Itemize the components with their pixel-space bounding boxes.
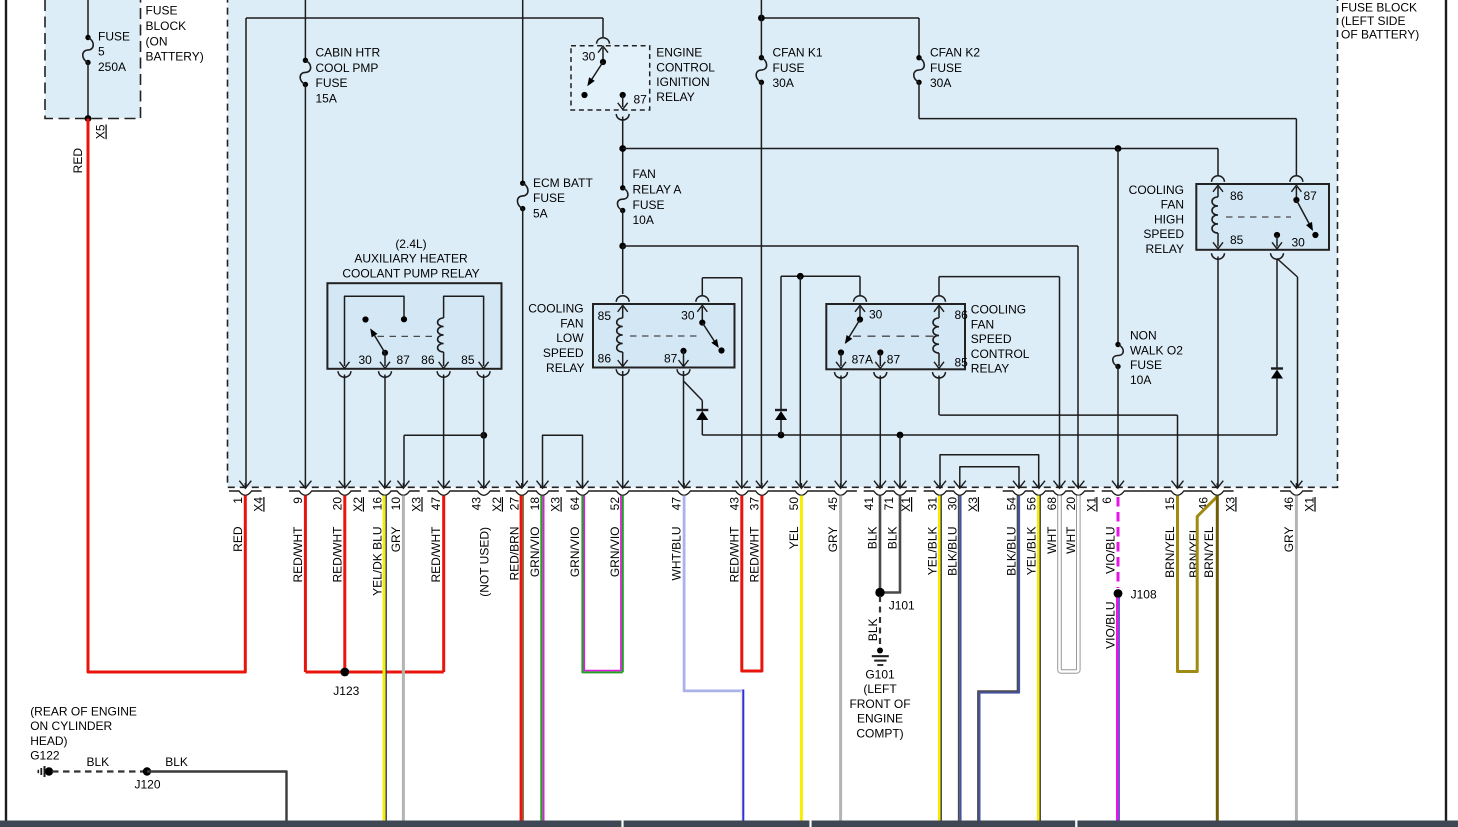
svg-text:HIGH: HIGH <box>1154 212 1184 226</box>
svg-text:31: 31 <box>926 497 940 511</box>
svg-text:20: 20 <box>330 497 344 511</box>
svg-text:85: 85 <box>461 353 475 367</box>
svg-text:87: 87 <box>397 353 411 367</box>
svg-text:X3: X3 <box>1223 497 1237 512</box>
svg-text:COOL PMP: COOL PMP <box>316 61 379 75</box>
svg-text:COOLING: COOLING <box>1129 183 1184 197</box>
svg-text:RED/WHT: RED/WHT <box>429 526 443 583</box>
svg-text:64: 64 <box>568 497 582 511</box>
svg-text:6: 6 <box>1100 497 1114 504</box>
svg-text:87: 87 <box>887 353 901 367</box>
svg-text:FUSE: FUSE <box>633 198 665 212</box>
svg-text:BLK: BLK <box>165 755 188 769</box>
svg-text:27: 27 <box>507 497 521 511</box>
svg-text:IGNITION: IGNITION <box>656 75 709 89</box>
svg-text:J108: J108 <box>1131 588 1157 602</box>
svg-text:X3: X3 <box>966 497 980 512</box>
svg-text:30: 30 <box>945 497 959 511</box>
svg-text:ECM BATT: ECM BATT <box>533 176 593 190</box>
svg-text:43: 43 <box>727 497 741 511</box>
svg-text:VIO/BLU: VIO/BLU <box>1104 527 1118 574</box>
svg-text:30: 30 <box>869 308 883 322</box>
svg-text:46: 46 <box>1282 497 1296 511</box>
svg-text:SPEED: SPEED <box>543 346 584 360</box>
svg-text:GRY: GRY <box>1282 527 1296 553</box>
svg-text:LOW: LOW <box>556 331 584 345</box>
svg-text:GRY: GRY <box>826 527 840 553</box>
svg-text:J123: J123 <box>333 684 359 698</box>
svg-text:BLOCK: BLOCK <box>146 19 187 33</box>
svg-text:HEAD): HEAD) <box>30 734 67 748</box>
svg-text:FUSE: FUSE <box>146 4 178 18</box>
svg-text:FUSE: FUSE <box>773 61 805 75</box>
svg-text:71: 71 <box>882 497 896 511</box>
svg-text:30: 30 <box>1292 236 1306 250</box>
svg-text:18: 18 <box>528 497 542 511</box>
svg-text:BRN/YEL: BRN/YEL <box>1187 526 1201 578</box>
svg-text:41: 41 <box>862 497 876 511</box>
svg-text:X4: X4 <box>251 497 265 512</box>
svg-text:15A: 15A <box>316 92 337 106</box>
svg-text:CONTROL: CONTROL <box>971 347 1030 361</box>
svg-text:YEL: YEL <box>787 526 801 549</box>
svg-text:WALK O2: WALK O2 <box>1130 343 1183 357</box>
svg-text:87: 87 <box>664 352 678 366</box>
svg-text:9: 9 <box>291 497 305 504</box>
svg-text:87A: 87A <box>852 353 873 367</box>
svg-text:FRONT OF: FRONT OF <box>849 697 910 711</box>
svg-text:ENGINE: ENGINE <box>656 46 702 60</box>
svg-text:RED/WHT: RED/WHT <box>330 526 344 583</box>
svg-text:BLK: BLK <box>86 755 109 769</box>
svg-text:(ON: (ON <box>146 34 168 48</box>
svg-text:RED/WHT: RED/WHT <box>747 526 761 583</box>
svg-text:10: 10 <box>389 497 403 511</box>
svg-text:COOLANT PUMP RELAY: COOLANT PUMP RELAY <box>342 266 479 280</box>
svg-text:YEL/DK BLU: YEL/DK BLU <box>370 527 384 596</box>
svg-text:250A: 250A <box>98 60 126 74</box>
svg-text:RELAY: RELAY <box>546 361 584 375</box>
svg-text:RED/WHT: RED/WHT <box>291 526 305 583</box>
svg-text:RED/BRN: RED/BRN <box>507 527 521 581</box>
svg-text:30: 30 <box>681 309 695 323</box>
svg-text:NON: NON <box>1130 329 1157 343</box>
svg-text:RELAY: RELAY <box>656 90 694 104</box>
svg-text:87: 87 <box>634 93 648 107</box>
svg-text:SPEED: SPEED <box>1143 227 1184 241</box>
svg-text:COOLING: COOLING <box>528 302 583 316</box>
svg-text:YEL/BLK: YEL/BLK <box>1025 527 1039 576</box>
svg-text:COMPT): COMPT) <box>856 726 903 740</box>
svg-text:16: 16 <box>370 497 384 511</box>
svg-text:(LEFT SIDE: (LEFT SIDE <box>1341 14 1405 28</box>
svg-text:47: 47 <box>429 497 443 511</box>
svg-text:(LEFT: (LEFT <box>863 682 897 696</box>
svg-text:1: 1 <box>231 497 245 504</box>
svg-text:COOLING: COOLING <box>971 303 1026 317</box>
svg-text:GRN/VIO: GRN/VIO <box>568 527 582 578</box>
svg-text:CONTROL: CONTROL <box>656 60 715 74</box>
svg-text:AUXILIARY HEATER: AUXILIARY HEATER <box>354 252 468 266</box>
svg-text:X1: X1 <box>1084 497 1098 512</box>
svg-text:86: 86 <box>598 352 612 366</box>
svg-text:BLK: BLK <box>866 619 880 642</box>
svg-text:SPEED: SPEED <box>971 332 1012 346</box>
svg-text:BLK/BLU: BLK/BLU <box>1005 527 1019 576</box>
svg-text:FAN: FAN <box>633 167 656 181</box>
svg-text:FUSE: FUSE <box>316 76 348 90</box>
svg-text:54: 54 <box>1005 497 1019 511</box>
svg-text:56: 56 <box>1025 497 1039 511</box>
svg-text:45: 45 <box>826 497 840 511</box>
svg-text:5A: 5A <box>533 207 548 221</box>
svg-text:G101: G101 <box>865 668 895 682</box>
svg-text:FAN: FAN <box>560 316 583 330</box>
svg-text:50: 50 <box>787 497 801 511</box>
svg-text:J120: J120 <box>134 778 160 792</box>
svg-text:X2: X2 <box>490 497 504 512</box>
svg-text:RED/WHT: RED/WHT <box>727 526 741 583</box>
svg-text:BLK/BLU: BLK/BLU <box>945 527 959 576</box>
svg-text:86: 86 <box>955 308 969 322</box>
svg-text:47: 47 <box>670 497 684 511</box>
svg-text:FAN: FAN <box>1161 198 1184 212</box>
svg-text:RELAY: RELAY <box>1146 242 1184 256</box>
svg-text:CFAN K2: CFAN K2 <box>930 46 980 60</box>
svg-text:85: 85 <box>598 309 612 323</box>
svg-text:(NOT USED): (NOT USED) <box>478 527 492 597</box>
svg-text:BRN/YEL: BRN/YEL <box>1202 526 1216 578</box>
svg-text:BLK: BLK <box>866 527 880 550</box>
svg-text:85: 85 <box>955 355 969 369</box>
svg-text:FAN: FAN <box>971 317 994 331</box>
svg-text:GRN/VIO: GRN/VIO <box>528 527 542 578</box>
svg-text:43: 43 <box>469 497 483 511</box>
svg-text:WHT: WHT <box>1045 526 1059 554</box>
svg-text:X1: X1 <box>1302 497 1316 512</box>
svg-text:30: 30 <box>359 353 373 367</box>
svg-text:X3: X3 <box>409 497 423 512</box>
svg-text:VIO/BLU: VIO/BLU <box>1103 602 1117 649</box>
svg-text:YEL/BLK: YEL/BLK <box>926 527 940 576</box>
svg-text:10A: 10A <box>1130 373 1151 387</box>
svg-text:FUSE: FUSE <box>98 29 130 43</box>
svg-text:5: 5 <box>98 45 105 59</box>
svg-text:(REAR OF ENGINE: (REAR OF ENGINE <box>30 705 137 719</box>
svg-text:J101: J101 <box>889 599 915 613</box>
svg-text:FUSE: FUSE <box>1130 358 1162 372</box>
svg-text:30A: 30A <box>930 76 951 90</box>
svg-text:30A: 30A <box>773 76 794 90</box>
svg-text:68: 68 <box>1045 497 1059 511</box>
svg-text:ON CYLINDER: ON CYLINDER <box>30 719 112 733</box>
svg-text:86: 86 <box>421 353 435 367</box>
svg-text:FUSE BLOCK: FUSE BLOCK <box>1341 1 1417 15</box>
svg-text:WHT: WHT <box>1064 526 1078 554</box>
svg-text:RELAY A: RELAY A <box>633 182 682 196</box>
svg-text:RED: RED <box>71 148 85 174</box>
svg-text:86: 86 <box>1230 189 1244 203</box>
svg-text:37: 37 <box>747 497 761 511</box>
svg-text:RELAY: RELAY <box>971 362 1009 376</box>
svg-text:FUSE: FUSE <box>533 191 565 205</box>
svg-text:X5: X5 <box>94 124 108 139</box>
svg-text:G122: G122 <box>30 749 60 763</box>
svg-text:BLK: BLK <box>886 527 900 550</box>
svg-text:WHT/BLU: WHT/BLU <box>670 527 684 581</box>
svg-text:RED: RED <box>231 526 245 552</box>
svg-text:30: 30 <box>582 50 596 64</box>
svg-text:X3: X3 <box>549 497 563 512</box>
svg-text:10A: 10A <box>633 213 654 227</box>
svg-text:85: 85 <box>1230 233 1244 247</box>
svg-text:GRY: GRY <box>389 527 403 553</box>
svg-text:OF BATTERY): OF BATTERY) <box>1341 28 1419 42</box>
svg-text:ENGINE: ENGINE <box>857 712 903 726</box>
svg-text:BRN/YEL: BRN/YEL <box>1163 526 1177 578</box>
svg-text:FUSE: FUSE <box>930 61 962 75</box>
svg-text:CFAN K1: CFAN K1 <box>773 46 823 60</box>
svg-text:X2: X2 <box>351 497 365 512</box>
svg-text:(2.4L): (2.4L) <box>395 237 426 251</box>
svg-text:15: 15 <box>1163 497 1177 511</box>
svg-text:BATTERY): BATTERY) <box>146 50 204 64</box>
svg-text:CABIN HTR: CABIN HTR <box>316 46 381 60</box>
svg-text:20: 20 <box>1064 497 1078 511</box>
svg-text:87: 87 <box>1304 189 1318 203</box>
